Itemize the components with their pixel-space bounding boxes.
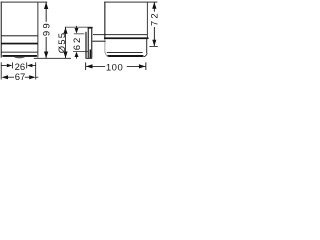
right view: wall plate bottom <box>86 57 92 60</box>
dim diam55 line <box>64 27 67 58</box>
dim 72 arrow down <box>152 40 156 47</box>
right view: holder ring thick band <box>104 37 149 39</box>
dim 99 line lower segment <box>45 37 48 58</box>
left view: wall-side left edge <box>1 2 2 58</box>
dim 100 line left segment <box>86 65 105 68</box>
left view: top edge of glass <box>1 1 48 4</box>
right view: wall plate left edge <box>88 28 89 59</box>
dim 26v lower outside arrow pointing up <box>75 52 79 57</box>
dim 26 right tick <box>25 62 28 68</box>
dim 72 line upper segment <box>153 2 156 12</box>
dim 100 arrow left <box>86 64 93 68</box>
dim diam55 arrow up <box>63 27 67 34</box>
dim 67 left extension line <box>0 62 3 79</box>
svg-text:72: 72 <box>150 11 160 26</box>
right view: glass left edge upper <box>104 2 105 40</box>
dim 72 bottom extension <box>149 45 157 48</box>
dim 26 left tick <box>11 62 14 68</box>
dim diam55 top extension to plate <box>65 26 93 29</box>
right view: glass front edge lower <box>146 39 147 53</box>
dim 67 right arrow <box>29 75 35 79</box>
dim 99 line upper segment <box>45 2 48 22</box>
dim 26 left outside arrow <box>7 64 13 68</box>
dim 67 left arrow <box>2 75 8 79</box>
dim 100 left tick <box>84 62 87 70</box>
right view: glass bottom-left corner <box>105 53 108 57</box>
dim diam55 arrow down <box>63 52 67 59</box>
dim 99 arrow up <box>44 2 48 9</box>
dim 99 bottom extension line <box>34 57 71 60</box>
svg-text:Ø55: Ø55 <box>57 32 68 54</box>
left view: glass base thick band <box>2 55 37 57</box>
svg-text:67: 67 <box>15 72 26 83</box>
right view: plate fixing detail <box>90 50 91 59</box>
dim 67 line left segment <box>7 76 15 79</box>
dim 67 line right segment <box>25 76 31 79</box>
left view: glass foot arc <box>14 57 25 58</box>
dim 26v upper tail <box>75 26 78 29</box>
right view: glass bottom inner line <box>107 51 143 54</box>
dim 67 right extension line <box>34 62 37 79</box>
right view: glass bottom-right corner <box>144 53 148 57</box>
dim 100 arrow right <box>139 64 146 68</box>
dim 72 line lower segment <box>153 27 156 46</box>
dim 26v upper outside arrow pointing down <box>75 28 79 34</box>
dim 26 right outside arrow <box>27 64 32 68</box>
left view: holder ring bottom thick line <box>1 43 38 45</box>
svg-text:100: 100 <box>106 62 123 73</box>
right view: glass left edge lower <box>104 39 107 53</box>
right view: glass front edge upper <box>147 2 148 38</box>
left view: holder ring top line <box>1 35 38 36</box>
svg-text:99: 99 <box>42 21 53 36</box>
svg-text:62: 62 <box>72 36 83 51</box>
right view: wall plate right edge <box>91 28 92 59</box>
right view: holder ring thin top line <box>93 33 147 36</box>
right view: glass base thick band <box>107 55 144 57</box>
dim 100 right tick <box>144 62 147 70</box>
dim 72 arrow up <box>152 2 156 9</box>
dim 26v top extension <box>74 33 85 36</box>
right view: top edge with 72 extension <box>104 1 157 4</box>
dim 26v lower tail <box>75 57 78 59</box>
dim 26v bottom extension <box>73 50 88 53</box>
left view: front right edge <box>37 2 38 58</box>
right view: wall plate top <box>88 28 93 29</box>
left view: glass inner bottom line <box>1 51 38 54</box>
dim 26 right tail <box>32 64 36 67</box>
dim 99 arrow down <box>44 52 48 59</box>
right view: rosette front edge <box>85 32 86 59</box>
dim 100 line right segment <box>127 65 146 68</box>
dim 67 overrun dash <box>36 76 38 79</box>
dim 26 left tail <box>1 64 6 67</box>
right view: arm bottom line <box>92 41 105 42</box>
